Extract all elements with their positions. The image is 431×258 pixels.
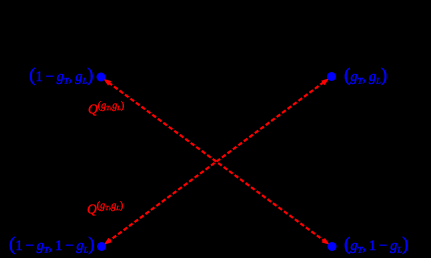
arrowhead at TR end xyxy=(321,78,329,85)
wire: dashed diagonal TR to BL xyxy=(109,82,324,241)
arrowhead at BL end xyxy=(104,238,112,245)
svg-text:(1 − gT, 1 − gL): (1 − gT, 1 − gL) xyxy=(9,234,95,255)
svg-text:(gT, gL): (gT, gL) xyxy=(344,65,387,86)
wire: dashed diagonal TL to BR xyxy=(109,83,325,242)
node top-left xyxy=(97,73,106,82)
node bottom-left xyxy=(97,242,106,251)
node top-right xyxy=(327,72,336,81)
arrowhead at TL end xyxy=(103,79,111,86)
node bottom-right xyxy=(328,242,337,251)
arrowhead at BR end xyxy=(322,238,330,245)
